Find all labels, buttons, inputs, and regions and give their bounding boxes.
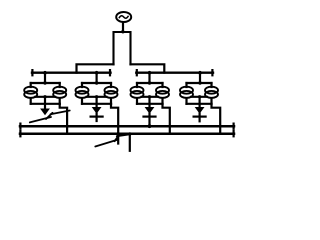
stub to T4a — [185, 83, 187, 87]
bus A end tick left — [19, 124, 21, 129]
node LV group4 — [198, 95, 201, 98]
stub T3b bottom — [161, 98, 163, 104]
LV bar group1 — [31, 103, 60, 105]
wire box to left feeder — [77, 64, 114, 72]
step wire group3 to LV bus — [163, 104, 170, 134]
transformer T3b — [156, 87, 169, 98]
stub to T2a — [81, 83, 83, 87]
left feeder end tick left — [31, 70, 33, 75]
wire drop group4 — [199, 73, 201, 83]
splitter bar group2 — [82, 82, 111, 84]
wire drop group1 — [44, 73, 46, 83]
stub to T2b — [110, 83, 112, 87]
LV connector group2 — [87, 96, 107, 98]
LV connector group4 — [191, 96, 207, 98]
wire drop group3 — [148, 73, 150, 83]
transformer T2a — [76, 87, 89, 98]
plant bus box (open bottom) — [114, 32, 131, 64]
left feeder end tick right — [109, 70, 111, 75]
load tick group3 — [144, 115, 156, 117]
load arrow group4 — [195, 107, 205, 114]
stub to T4b — [210, 83, 212, 87]
splitter bar group3 — [137, 82, 163, 84]
bus B end tick right — [233, 131, 235, 136]
stub T4a bottom — [185, 98, 187, 104]
wire box to right feeder — [131, 64, 165, 72]
transformer T2b — [105, 87, 118, 98]
LV connector group1 — [35, 96, 55, 98]
load tail group2 — [95, 114, 97, 122]
outgoing feeder below bus B — [129, 134, 131, 151]
splitter bar group4 — [187, 82, 212, 84]
load arrow group1 — [40, 109, 50, 116]
load arrow group2 — [92, 107, 102, 114]
node outgoing feeder on bus B — [128, 132, 131, 135]
load feeder group1 — [44, 97, 46, 109]
load tail group4 — [199, 114, 201, 122]
step wire group4 to LV bus — [212, 104, 221, 134]
stub to T1b — [59, 83, 61, 87]
stub to T3a — [136, 83, 138, 87]
right feeder end tick left — [136, 70, 138, 75]
bus B end tick left — [19, 131, 21, 136]
LV bus B — [20, 132, 234, 135]
sine symbol inside source — [119, 16, 128, 19]
node on bus A group3 — [148, 124, 152, 128]
AC source G — [116, 12, 131, 22]
splitter bar group1 — [31, 82, 60, 84]
LV bar group3 — [137, 103, 163, 105]
node tap group4 — [198, 71, 202, 75]
stub T2a bottom — [81, 98, 83, 104]
transformer T3a — [131, 87, 144, 98]
load tick group4 — [194, 115, 206, 117]
node group2 tail on bus B — [117, 132, 120, 135]
node LV group1 — [43, 95, 46, 98]
load arrow group3 — [145, 107, 155, 114]
right feeder end tick right — [211, 70, 213, 75]
node tap group1 — [43, 71, 47, 75]
transformer T4b — [205, 87, 218, 98]
step wire group1 to LV bus — [60, 104, 67, 134]
stub T2b bottom — [110, 98, 112, 104]
transformer T1b — [53, 87, 66, 98]
wire source to plant box — [122, 22, 124, 32]
right feeder bus — [136, 71, 213, 73]
transformer T1a — [24, 87, 37, 98]
stub T1a bottom — [30, 98, 32, 104]
step wire group2 to LV bus — [111, 104, 118, 144]
break zigzag bottom — [95, 134, 130, 146]
load feeder group3 — [148, 97, 150, 108]
node splitter group2 — [95, 81, 98, 84]
LV bar group2 — [82, 103, 111, 105]
wire drop group2 — [95, 73, 97, 83]
stub to T1a — [30, 83, 32, 87]
stub T1b bottom — [59, 98, 61, 104]
LV bar group4 — [187, 103, 212, 105]
node splitter group3 — [148, 81, 151, 84]
load feeder group2 — [95, 97, 97, 108]
load feeder group4 — [199, 97, 201, 108]
stub T3a bottom — [136, 98, 138, 104]
node LV group2 — [95, 95, 98, 98]
node LV group3 — [148, 95, 151, 98]
node tap group3 — [148, 71, 152, 75]
transformer T4a — [180, 87, 193, 98]
stub T4b bottom — [210, 98, 212, 104]
node tap group2 — [95, 71, 99, 75]
bus A end tick right — [233, 124, 235, 129]
node splitter group1 — [43, 81, 46, 84]
node at box top — [121, 30, 124, 33]
node splitter group4 — [198, 81, 201, 84]
break zigzag group1 — [30, 111, 70, 123]
load tick group2 — [91, 115, 103, 117]
stub to T3b — [161, 83, 163, 87]
LV bus A — [20, 125, 234, 128]
LV connector group3 — [142, 96, 158, 98]
load tail group3 to bus A — [148, 114, 150, 127]
left feeder bus — [32, 71, 111, 73]
